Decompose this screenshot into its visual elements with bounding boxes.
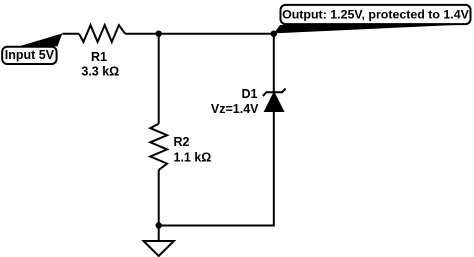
svg-text:D1: D1: [242, 87, 258, 101]
ground junction dot: [156, 222, 162, 228]
node B junction dot (output corner): [271, 31, 277, 37]
zener diode D1: [263, 88, 286, 111]
wire: node B down to D1 cathode: [273, 34, 275, 92]
svg-text:R1: R1: [91, 50, 107, 64]
wire: D1 anode to bottom wire to ground junction: [159, 112, 274, 226]
svg-text:3.3 kΩ: 3.3 kΩ: [81, 65, 119, 79]
resistor R2: [150, 124, 167, 170]
wire top: R1 to output corner: [125, 33, 274, 35]
callout pointer: output: [274, 25, 455, 33]
ground: [144, 241, 174, 256]
wire top: input to R1: [62, 33, 79, 35]
svg-text:Input 5V: Input 5V: [5, 48, 55, 62]
annotation box: Input 5V: [2, 47, 56, 64]
svg-text:Output: 1.25V, protected to 1.: Output: 1.25V, protected to 1.4V: [282, 8, 470, 22]
svg-text:Vz=1.4V: Vz=1.4V: [211, 102, 259, 116]
callout pointer: input: [19, 33, 62, 46]
wire: R2 to ground junction: [158, 170, 160, 241]
node A junction dot: [156, 31, 162, 37]
svg-text:R2: R2: [174, 135, 190, 149]
annotation box: Output: [281, 5, 471, 24]
wire: node A down to R2: [158, 34, 160, 124]
resistor R1: [79, 25, 125, 42]
svg-text:1.1 kΩ: 1.1 kΩ: [174, 151, 212, 165]
